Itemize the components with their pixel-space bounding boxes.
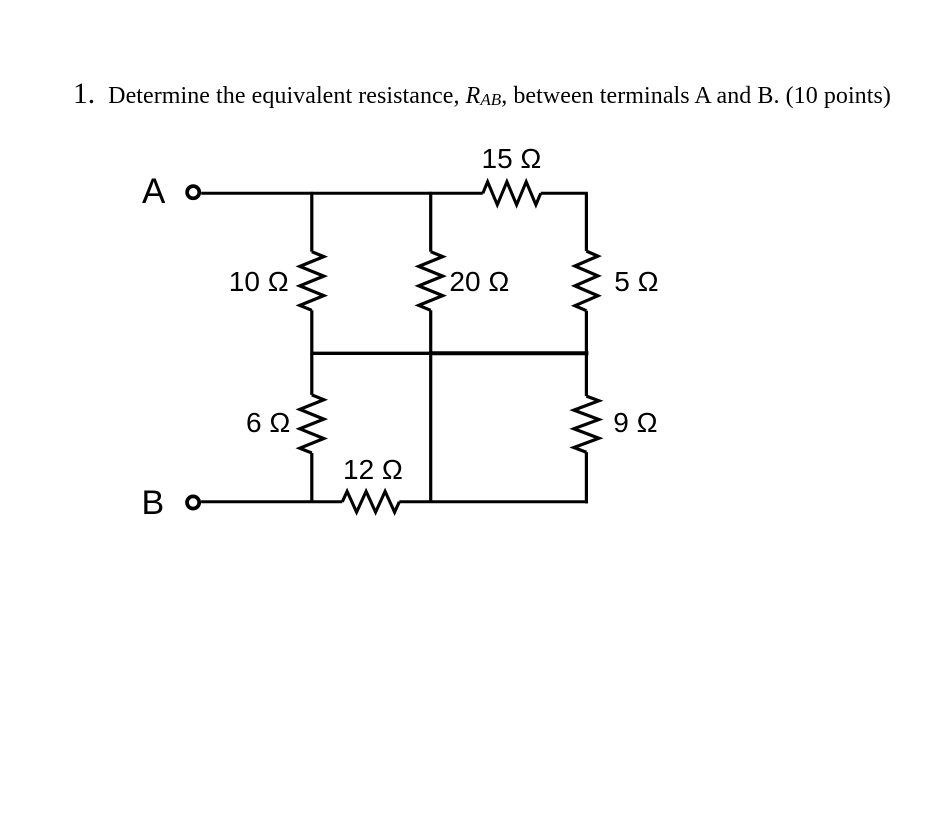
wire mid column top <box>429 192 432 252</box>
bottom wire R12 to right column <box>399 500 588 503</box>
resistor R15 15ohm <box>483 182 541 205</box>
label 5 ohm <box>614 268 658 296</box>
wire A to node1 top <box>201 192 483 195</box>
wire B to R12 <box>201 500 342 503</box>
resistor R12 12ohm <box>342 491 399 512</box>
resistor R20 20ohm <box>419 252 443 311</box>
wire right column mid to R9 <box>585 353 588 396</box>
wire left column top <box>310 192 313 252</box>
wire right column to mid <box>585 311 588 356</box>
resistor R6 6ohm <box>300 395 324 453</box>
wire R15 to top-right corner <box>541 192 588 195</box>
middle rail left segment <box>312 352 431 355</box>
wire mid column mid to bottom <box>429 353 432 502</box>
resistor R10 10ohm <box>300 252 324 311</box>
middle rail right segment <box>431 351 589 355</box>
terminal A <box>187 186 199 198</box>
problem statement text <box>73 74 891 116</box>
terminal B <box>187 496 199 508</box>
wire right column R9 to bottom <box>585 452 588 503</box>
terminal label A <box>142 174 165 209</box>
wire left column R6 to bottom <box>310 453 313 502</box>
label 20 ohm <box>449 268 509 296</box>
resistor R5 5ohm <box>575 251 598 311</box>
wire left column to mid <box>310 310 313 355</box>
label 6 ohm <box>246 409 290 437</box>
wire left column mid to R6 <box>310 353 313 395</box>
terminal label B <box>142 486 165 520</box>
label 15 ohm <box>482 145 542 173</box>
resistor R9 9ohm <box>574 396 599 452</box>
wire right column top <box>585 193 588 251</box>
wire mid column to mid rail <box>429 310 432 353</box>
label 9 ohm <box>613 409 657 437</box>
label 12 ohm <box>343 456 403 484</box>
label 10 ohm <box>229 268 289 296</box>
